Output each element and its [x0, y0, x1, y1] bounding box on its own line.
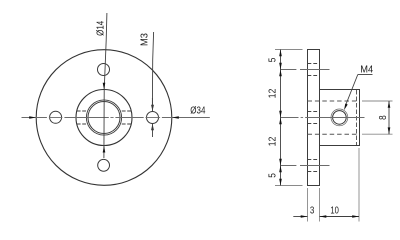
mounting hole top M3: [98, 64, 110, 76]
M4 leader slant: [346, 75, 358, 106]
svg-text:Ø14: Ø14: [95, 21, 106, 36]
mounting hole left M3: [50, 111, 62, 123]
M4 leader underline: [358, 74, 373, 76]
hidden line top hole upper: [308, 63, 320, 65]
hidden line mid hole lower: [308, 123, 320, 125]
M3 arrow tail below: [152, 123, 154, 137]
svg-text:10: 10: [330, 205, 339, 216]
bottom hole centerline: [280, 165, 329, 167]
arrow 8 bottom: [388, 127, 391, 134]
horizontal centerline / Ø34 dimension line: [22, 117, 210, 119]
Ø14 arrow bottom (points up at hub): [103, 146, 106, 153]
arrow 8 top: [388, 101, 391, 108]
hub rectangle: [320, 90, 360, 146]
M4 leader arrow: [344, 104, 348, 111]
bottom extension line plate left: [307, 188, 309, 222]
Ø34 arrow right: [172, 116, 179, 119]
svg-text:12: 12: [266, 89, 278, 99]
hidden line bottom hole lower: [308, 171, 320, 173]
hidden line mid hole upper: [308, 111, 320, 113]
bottom extension line hub right: [358, 148, 360, 222]
arrows at top hole center: [279, 63, 282, 70]
svg-text:8: 8: [377, 115, 388, 120]
svg-text:M3: M3: [139, 33, 150, 46]
hidden line bottom hole upper: [308, 159, 320, 161]
left dimension chain line: [280, 50, 282, 186]
hidden line set-screw hole left lower: [77, 123, 86, 125]
arrow 10 right: [352, 215, 359, 218]
dimension line 10: [320, 216, 360, 218]
M3 leader line: [152, 32, 153, 105]
flange plate rectangle: [308, 50, 320, 186]
dimension line 8: [388, 101, 390, 134]
hidden line bore upper: [308, 100, 360, 102]
arrow at plate top (up): [279, 50, 282, 57]
dimension 3 tail line: [293, 216, 307, 218]
Ø14 arrow top (points down at hub): [103, 83, 106, 90]
bore chamfer circle: [86, 100, 121, 135]
set screw circle M4 thread: [331, 109, 348, 126]
arrow 3 (points right): [301, 215, 308, 218]
hidden line set-screw hole left upper: [77, 110, 86, 112]
set screw circle M4 inner: [333, 111, 347, 125]
hub circle Ø14: [76, 90, 132, 146]
mounting hole bottom M3: [98, 159, 110, 171]
Ø34 arrow left: [29, 116, 36, 119]
hidden line set-screw hole right upper: [122, 110, 131, 112]
arrow at plate bottom (down): [279, 179, 282, 186]
hidden line top hole lower: [308, 75, 320, 77]
hidden line bore lower: [308, 133, 360, 135]
M3 arrow below hole (points up): [151, 123, 154, 130]
svg-text:Ø34: Ø34: [190, 105, 205, 116]
hidden line set-screw hole right lower: [122, 123, 131, 125]
extension line plate top: [275, 49, 303, 51]
top hole centerline: [280, 69, 329, 71]
mounting hole right M3: [147, 112, 159, 124]
bore extension line lower: [362, 133, 393, 135]
M3 arrow above hole (points down): [151, 105, 154, 112]
arrow 10 left: [320, 215, 327, 218]
arrows at mid center: [279, 111, 282, 118]
hidden line hub end chamfer: [356, 90, 358, 145]
extension line plate bottom: [275, 185, 303, 187]
bore extension line upper: [362, 100, 393, 102]
svg-text:M4: M4: [360, 64, 374, 75]
bore circle Ø8: [88, 102, 120, 134]
svg-text:5: 5: [267, 58, 278, 63]
Ø14 dimension leader line: [104, 13, 107, 158]
flange outer circle Ø34: [36, 50, 172, 186]
svg-text:5: 5: [267, 173, 278, 178]
side view main centerline: [280, 117, 364, 119]
M3 arrow tail above: [151, 98, 153, 112]
arrows at bottom hole center: [279, 159, 282, 166]
svg-text:12: 12: [266, 137, 278, 147]
svg-text:3: 3: [310, 205, 314, 216]
bottom extension line plate right: [319, 188, 321, 222]
